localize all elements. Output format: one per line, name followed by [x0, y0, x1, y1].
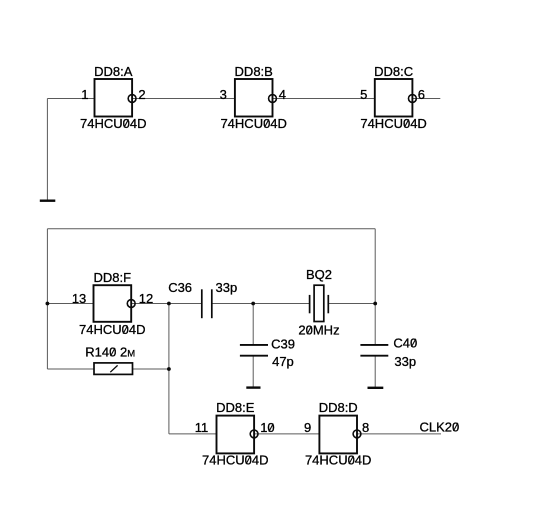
- svg-text:33p: 33p: [216, 280, 238, 295]
- svg-text:74HCU04D: 74HCU04D: [220, 116, 286, 131]
- svg-text:74HCU04D: 74HCU04D: [360, 116, 426, 131]
- svg-text:47p: 47p: [272, 354, 294, 369]
- svg-text:BQ2: BQ2: [306, 267, 332, 282]
- svg-text:13: 13: [72, 291, 86, 306]
- svg-text:C36: C36: [168, 280, 192, 295]
- svg-text:DD8:E: DD8:E: [216, 400, 255, 415]
- svg-text:5: 5: [360, 87, 367, 102]
- svg-text:3: 3: [220, 87, 227, 102]
- svg-text:33p: 33p: [394, 354, 416, 369]
- svg-text:C39: C39: [271, 337, 295, 352]
- svg-text:DD8:B: DD8:B: [235, 64, 273, 79]
- svg-text:74HCU04D: 74HCU04D: [80, 116, 146, 131]
- svg-text:74HCU04D: 74HCU04D: [202, 452, 268, 467]
- svg-text:CLK20: CLK20: [420, 419, 460, 434]
- svg-text:DD8:D: DD8:D: [319, 400, 358, 415]
- svg-text:DD8:A: DD8:A: [94, 64, 133, 79]
- svg-text:DD8:C: DD8:C: [374, 64, 413, 79]
- svg-text:8: 8: [362, 420, 369, 435]
- svg-text:1: 1: [81, 87, 88, 102]
- svg-text:74HCU04D: 74HCU04D: [79, 322, 145, 337]
- svg-text:2: 2: [138, 87, 145, 102]
- svg-text:6: 6: [418, 87, 425, 102]
- svg-text:11: 11: [195, 420, 209, 435]
- svg-text:20MHz: 20MHz: [298, 323, 339, 338]
- svg-text:74HCU04D: 74HCU04D: [305, 452, 371, 467]
- svg-text:10: 10: [260, 420, 274, 435]
- svg-text:9: 9: [304, 420, 311, 435]
- svg-text:DD8:F: DD8:F: [94, 270, 132, 285]
- svg-text:12: 12: [139, 291, 153, 306]
- svg-text:4: 4: [279, 87, 286, 102]
